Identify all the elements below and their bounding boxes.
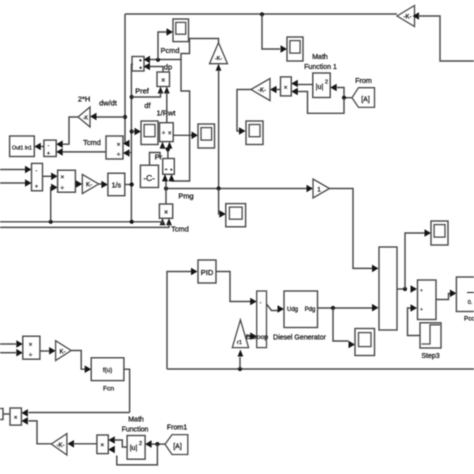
scope Scope4	[431, 221, 448, 245]
svg-text:Step3: Step3	[421, 353, 439, 360]
svg-text:×: ×	[29, 342, 33, 349]
node Pmg junction left	[164, 186, 168, 190]
node dwdt junction	[123, 115, 127, 119]
svg-text:PID: PID	[201, 268, 214, 277]
arrow into sum2 lower	[25, 179, 32, 187]
arrow into scope Pcmd	[167, 28, 174, 36]
divide block xdiv3	[23, 336, 40, 359]
wire main freq loop	[167, 368, 474, 370]
wire Pref vertical	[131, 64, 133, 222]
source Step3	[420, 323, 441, 348]
arrow into scope Pref	[135, 128, 142, 136]
sum block Ddroop	[257, 291, 267, 348]
wire droop to diesel	[267, 304, 278, 311]
wire gain1 out	[330, 189, 373, 269]
wire Pcmd	[150, 39, 219, 60]
gain 1 triangle	[313, 179, 330, 198]
wire dwdt to 2H gain	[96, 116, 125, 118]
wire mux out	[397, 288, 405, 290]
svg-text:|u|: |u|	[130, 445, 138, 452]
svg-text:2: 2	[139, 441, 142, 447]
wire in xdiv3 a	[0, 343, 16, 345]
svg-text:+: +	[420, 307, 423, 312]
svg-text:[A]: [A]	[361, 97, 370, 104]
svg-text:-K-: -K-	[404, 15, 412, 21]
wire rt to droop	[246, 335, 251, 337]
svg-text:2: 2	[325, 80, 328, 86]
wire vertical x181	[172, 60, 190, 182]
divide block Tcmd	[106, 136, 123, 159]
svg-text:÷: ÷	[117, 152, 121, 159]
wire Pmg to -K- pcmd	[218, 70, 220, 189]
arrow into dp right	[164, 87, 170, 94]
arrow into xdiv3 upper	[16, 340, 23, 348]
wire Pmg scope feed	[218, 189, 220, 215]
svg-text:+: +	[35, 184, 38, 190]
integrator 1/s	[108, 173, 125, 196]
arrow into sum1 upper	[56, 140, 63, 148]
product block x5	[97, 435, 108, 454]
wire Pcmd scope feed	[158, 32, 167, 60]
svg-text:Pref: Pref	[135, 87, 150, 96]
svg-text:Pcmd: Pcmd	[161, 46, 180, 55]
wire u2a to x5	[115, 440, 128, 447]
arrow into Pr left	[162, 174, 168, 181]
arrow into gain 1	[307, 185, 314, 193]
svg-text:×: ×	[284, 85, 288, 92]
svg-text:×: ×	[117, 142, 121, 149]
wire Pr stub	[163, 148, 170, 158]
svg-text:Tcmd: Tcmd	[83, 138, 101, 147]
wire Pr feed vertical	[165, 180, 167, 204]
goto From1 [A]	[165, 435, 188, 455]
wire left loop vertical	[125, 14, 129, 144]
sum block sum3	[418, 280, 437, 320]
product block x4	[10, 408, 21, 425]
arrow into sum1 lower	[56, 148, 63, 156]
svg-text:Function: Function	[122, 427, 149, 434]
divide block 1/Rwt	[160, 123, 174, 142]
svg-text:df: df	[144, 101, 151, 110]
wire -C- out	[150, 153, 161, 166]
wire Tcmd-div to sum1	[63, 151, 107, 153]
svg-text:Pcc: Pcc	[464, 316, 474, 323]
wire x6 to -K-4	[277, 89, 281, 91]
svg-text:-K-: -K-	[258, 88, 266, 94]
arrow into x4 upper	[21, 409, 28, 417]
arrow into xdiv2 lower	[51, 184, 58, 192]
svg-text:1/s: 1/s	[112, 182, 122, 189]
arrow into x5 upper	[108, 436, 115, 444]
svg-text:Fcn: Fcn	[103, 386, 114, 393]
node Pmg junction right	[217, 186, 221, 190]
wire PID feed	[167, 272, 191, 370]
node omega joins bottom wire	[130, 220, 134, 224]
arrow into x6 lower	[291, 88, 298, 96]
subsystem Diesel Generator	[284, 291, 318, 328]
svg-text:+: +	[420, 288, 423, 293]
constant -C-	[140, 165, 158, 187]
divide block xdiv2	[58, 170, 76, 192]
wire 1/s out omega	[125, 184, 132, 186]
wire sum1 to subsystem	[41, 146, 44, 148]
wire top loop	[125, 13, 397, 15]
wire rt feed	[239, 357, 241, 369]
wire K2 to x4	[29, 421, 52, 444]
node Pref branch	[130, 95, 134, 99]
svg-text:×: ×	[161, 78, 165, 85]
wire u2 to x6	[298, 84, 313, 86]
sum block Pr	[163, 159, 175, 175]
arrow into x6 upper	[291, 80, 298, 88]
arrow into Tcmd-x left	[160, 218, 166, 225]
wire Pref to divider lower	[129, 152, 132, 154]
svg-text:Math: Math	[312, 54, 328, 61]
math block u2 top	[313, 73, 330, 98]
svg-text:f(u): f(u)	[103, 367, 112, 374]
svg-text:Math: Math	[128, 417, 144, 424]
arrow into -K- top right	[413, 12, 420, 20]
arrow into sum3 in1	[411, 285, 418, 293]
wire Pdg scope feed	[333, 308, 349, 341]
wire scope1 feed	[262, 14, 280, 49]
arrow into K3	[49, 347, 56, 355]
arrow into mux in2	[372, 304, 379, 312]
svg-text:K-: K-	[86, 183, 92, 189]
wire long Tcmd 1	[0, 222, 163, 224]
scope Pmg scope	[226, 204, 246, 227]
node 1/s out	[130, 182, 134, 186]
arrow into P block	[450, 290, 457, 298]
wire rwt to dp	[166, 92, 168, 123]
arrow into PID	[191, 268, 198, 276]
block pcmd-dp	[132, 57, 144, 72]
wire Pref to dp	[132, 92, 161, 97]
arrow into -K- pcmd base	[216, 64, 222, 71]
arrow into droop in1	[250, 298, 257, 306]
node mux out junction	[403, 287, 407, 291]
wire From1 to u2a	[152, 443, 166, 445]
block Pcc	[456, 277, 474, 312]
wire xdiv3 to K3	[40, 350, 49, 352]
arrow into sum3 in2	[411, 304, 418, 312]
gain -K-2	[51, 434, 67, 455]
gain -K-4	[251, 79, 270, 101]
arrow into 2*H gain	[90, 113, 97, 121]
mux block	[379, 247, 397, 330]
wire from right edge to -K-	[418, 16, 474, 61]
arrow into x5 lower	[108, 446, 115, 454]
node long wire junction	[49, 220, 53, 224]
arrow into x4 lower	[21, 417, 28, 425]
wire From1 lower loop	[117, 444, 158, 465]
svg-text:-K-: -K-	[215, 56, 223, 62]
node From1 junction	[155, 442, 159, 446]
wire 2H out to sum	[63, 117, 79, 144]
arrow into Tcmd-div lower	[123, 149, 130, 157]
node Pref scope junction	[130, 129, 134, 133]
arrow into scope1	[281, 45, 288, 53]
svg-text:Ddroop: Ddroop	[246, 334, 269, 341]
scope Pref	[141, 121, 158, 145]
gain -K- pcmd (up)	[210, 43, 228, 64]
wire xdiv2 to K	[74, 183, 77, 185]
svg-text:r1: r1	[237, 340, 242, 346]
svg-text:÷: ÷	[29, 352, 33, 359]
wire From lower loop	[298, 92, 345, 114]
wire in xdiv3 b	[0, 352, 16, 354]
controller PID	[198, 260, 216, 283]
node freq loop junction	[238, 367, 242, 371]
svg-text:×: ×	[168, 131, 172, 137]
arrow into scope5	[349, 341, 356, 349]
svg-text:Diesel Generator: Diesel Generator	[273, 335, 327, 342]
svg-text:Pr: Pr	[155, 153, 163, 162]
product block dp	[157, 72, 170, 87]
wire long Tcmd 2	[0, 224, 169, 228]
block edge sliver	[0, 409, 3, 420]
svg-text:dp: dp	[164, 63, 172, 72]
svg-text:×: ×	[164, 210, 168, 217]
svg-text:-C-: -C-	[143, 173, 155, 183]
arrow into Tcmd-div upper	[123, 140, 130, 148]
svg-text:1: 1	[317, 187, 321, 194]
subsystem Out1 In1	[10, 136, 35, 157]
product block Tcmd-x	[159, 204, 172, 218]
wire long feedback	[29, 412, 130, 414]
svg-text:[A]: [A]	[173, 444, 182, 451]
wire Pmg	[166, 188, 307, 190]
wire x5 to K2	[73, 443, 97, 445]
arrow into dp left	[158, 87, 164, 94]
svg-text:dw/dt: dw/dt	[99, 99, 117, 108]
wire rwt out to scope2	[173, 134, 191, 136]
node Pcmd junction	[156, 58, 160, 62]
arrow into pcmd-dp lower	[144, 63, 151, 71]
arrow into Tcmd-x right	[166, 218, 172, 225]
svg-text:1/Rwt: 1/Rwt	[157, 109, 176, 118]
scope Pcmd	[173, 19, 189, 42]
node From junction	[342, 96, 346, 100]
arrow into rwt right	[167, 142, 173, 149]
scope Scope3	[246, 121, 263, 145]
gain K- lower	[56, 341, 72, 361]
gain -K- top right	[397, 6, 415, 27]
scope Scope1	[287, 37, 303, 61]
wire PID out	[216, 272, 251, 302]
goto From [A]	[352, 88, 375, 108]
gain 2*H triangle	[78, 107, 90, 127]
arrow into rwt left	[160, 142, 166, 149]
arrow into diesel Udg	[278, 305, 285, 313]
arrow into u2a	[145, 440, 152, 448]
arrow into u2 top	[330, 84, 337, 92]
svg-text:0.: 0.	[468, 300, 473, 306]
wire From to u2	[337, 88, 352, 98]
wire step3 to sum3	[408, 308, 422, 336]
arrow into Out1In1	[34, 143, 41, 151]
sum block sum1	[44, 140, 56, 156]
scope Scope2	[198, 124, 215, 148]
svg-text:÷: ÷	[60, 185, 64, 192]
arrow into 1/s	[101, 181, 108, 189]
svg-text:Tcmd: Tcmd	[171, 225, 189, 234]
svg-text:×: ×	[100, 442, 104, 449]
wire K3 to fu	[71, 351, 85, 370]
wire sum2 out	[43, 175, 52, 177]
node Pdg junction	[331, 306, 335, 310]
svg-text:From: From	[355, 76, 372, 85]
svg-text:Udg: Udg	[287, 307, 298, 313]
arrow into -K-4	[270, 86, 277, 94]
arrow into scope4	[425, 229, 432, 237]
wire in sum2 a	[0, 169, 26, 171]
svg-text:×: ×	[14, 415, 18, 422]
gain K- mid	[82, 174, 98, 193]
wire Pdg out	[318, 307, 372, 309]
wire omega feedback up	[50, 187, 52, 221]
arrow Pr left feed	[162, 174, 168, 181]
wire fu out down	[124, 369, 130, 412]
wire scope4 feed	[405, 233, 425, 289]
arrow into mux in1	[372, 265, 379, 273]
arrow into rt triangle	[238, 350, 244, 357]
arrow into pcmd-dp upper	[144, 56, 151, 64]
arrow into f(u)	[85, 365, 92, 373]
arrow into -K-2	[68, 440, 75, 448]
svg-text:Out1 In1: Out1 In1	[12, 145, 32, 151]
wire -K-4 to scope3	[237, 90, 251, 132]
svg-text:Pmg: Pmg	[178, 192, 193, 201]
svg-text:K-: K-	[60, 350, 66, 356]
wire K to 1s	[99, 183, 102, 185]
svg-text:+: +	[47, 151, 50, 157]
arrow into scope Pmg	[219, 210, 226, 218]
arrow into xdiv2 upper	[51, 173, 58, 181]
svg-text:Function 1: Function 1	[304, 64, 337, 71]
function block f(u)	[91, 358, 124, 381]
node Pr junction	[166, 147, 170, 151]
arrow into scope3	[239, 127, 246, 135]
arrow into xdiv3 lower	[16, 349, 23, 357]
arrow into Pr right	[169, 174, 175, 181]
svg-text:-K-: -K-	[57, 443, 65, 449]
svg-text:-K: -K	[83, 116, 89, 122]
product block x6	[281, 77, 292, 96]
svg-text:2*H: 2*H	[78, 95, 90, 104]
node top junction	[260, 12, 264, 16]
rate limiter r1 triangle	[232, 320, 248, 348]
arrow jog into Pr right	[169, 174, 175, 181]
arrow into gain K mid	[76, 180, 83, 188]
wire Pref scope feed	[132, 131, 135, 133]
wire dp out	[150, 67, 163, 73]
svg-text:×: ×	[60, 174, 64, 181]
svg-text:From1: From1	[167, 425, 187, 432]
svg-text:Pdg: Pdg	[305, 307, 316, 313]
wire sum3 out	[436, 294, 450, 300]
wire x4 out	[3, 413, 10, 415]
sum block sum2	[32, 163, 43, 190]
svg-text:|u|: |u|	[316, 82, 324, 91]
wire in sum2 b	[0, 182, 26, 184]
math block u2a	[127, 436, 145, 460]
scope Scope5	[355, 329, 375, 356]
arrow into sum2 upper	[25, 166, 32, 174]
arrow into droop in2	[250, 332, 257, 340]
arrow into scope2	[192, 132, 199, 140]
